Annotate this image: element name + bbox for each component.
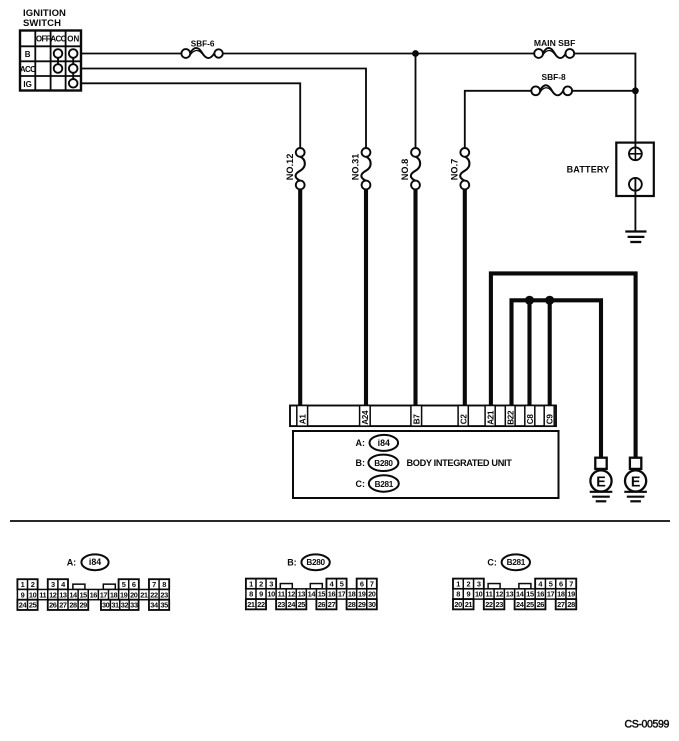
fuse NO.7	[460, 148, 469, 189]
svg-text:NO.12: NO.12	[285, 154, 295, 181]
ignition switch label	[23, 8, 66, 29]
svg-text:E: E	[631, 474, 641, 490]
svg-text:19: 19	[358, 590, 366, 599]
svg-text:C9: C9	[545, 414, 554, 425]
svg-text:16: 16	[537, 590, 545, 599]
ground E (right, from A21)	[624, 458, 647, 502]
svg-text:9: 9	[467, 590, 471, 599]
svg-text:9: 9	[21, 590, 25, 599]
body integrated unit connector strip	[290, 406, 556, 427]
pin C8	[525, 406, 535, 427]
svg-text:12: 12	[495, 590, 503, 599]
svg-text:i84: i84	[89, 557, 101, 567]
svg-text:28: 28	[69, 601, 77, 610]
svg-text:1: 1	[249, 579, 253, 588]
svg-text:NO.8: NO.8	[400, 159, 410, 180]
svg-text:28: 28	[567, 600, 575, 609]
svg-text:A1: A1	[298, 414, 307, 425]
svg-text:32: 32	[121, 601, 129, 610]
svg-text:6: 6	[132, 580, 136, 589]
svg-text:NO.7: NO.7	[449, 159, 459, 180]
node: junction feeding fuse NO.8	[412, 50, 419, 57]
fuse SBF-8	[531, 85, 572, 95]
svg-text:22: 22	[257, 600, 265, 609]
svg-text:11: 11	[39, 590, 46, 599]
svg-text:27: 27	[328, 600, 336, 609]
svg-text:IG: IG	[23, 80, 31, 89]
svg-text:24: 24	[19, 601, 28, 610]
connector ref A: i84	[356, 435, 399, 451]
svg-text:10: 10	[267, 590, 275, 599]
wire: fuse NO.31 to pin A24	[364, 189, 368, 411]
svg-text:7: 7	[152, 580, 156, 589]
fuse MAIN SBF	[534, 48, 574, 58]
wire: pin C8 branch	[527, 300, 531, 410]
wire: SBF-8 to junction on battery line	[572, 90, 635, 92]
wire: ACC terminal to fuse NO.31	[81, 69, 366, 149]
svg-text:A24: A24	[361, 410, 370, 425]
svg-text:25: 25	[29, 601, 37, 610]
svg-text:12: 12	[288, 590, 296, 599]
svg-text:BODY INTEGRATED UNIT: BODY INTEGRATED UNIT	[407, 458, 513, 468]
connector view B: B280 pin grid	[246, 554, 377, 609]
svg-text:16: 16	[90, 590, 98, 599]
svg-text:1: 1	[456, 579, 460, 588]
svg-text:35: 35	[160, 601, 168, 610]
svg-text:24: 24	[288, 600, 297, 609]
svg-text:34: 34	[150, 601, 159, 610]
svg-text:3: 3	[269, 579, 273, 588]
svg-text:18: 18	[348, 590, 356, 599]
svg-text:6: 6	[360, 579, 364, 588]
svg-text:B280: B280	[374, 459, 393, 468]
separator line between schematic and connector views	[10, 520, 670, 522]
svg-text:20: 20	[454, 600, 462, 609]
svg-text:17: 17	[338, 590, 346, 599]
svg-text:ON: ON	[67, 35, 79, 44]
svg-text:6: 6	[559, 579, 563, 588]
svg-text:7: 7	[370, 579, 374, 588]
svg-text:E: E	[596, 474, 606, 490]
svg-text:SBF-6: SBF-6	[191, 40, 215, 49]
svg-text:11: 11	[485, 590, 492, 599]
battery	[616, 143, 654, 232]
svg-text:21: 21	[465, 600, 473, 609]
svg-text:17: 17	[100, 590, 108, 599]
svg-text:31: 31	[111, 601, 119, 610]
pin A24	[360, 406, 371, 427]
svg-text:23: 23	[277, 600, 285, 609]
svg-text:25: 25	[298, 600, 306, 609]
svg-text:SBF-8: SBF-8	[541, 72, 566, 82]
ground E (left, from B22/C8/C9)	[590, 458, 613, 502]
svg-text:B:: B:	[287, 558, 297, 568]
ignition switch contact circles	[54, 49, 78, 87]
svg-text:9: 9	[259, 590, 263, 599]
svg-text:23: 23	[495, 600, 503, 609]
svg-text:ACC: ACC	[50, 35, 66, 44]
svg-text:21: 21	[140, 590, 148, 599]
svg-text:7: 7	[569, 579, 573, 588]
svg-text:3: 3	[51, 580, 55, 589]
svg-text:C8: C8	[526, 414, 535, 425]
ignition switch contact table	[20, 31, 81, 91]
svg-text:27: 27	[59, 601, 67, 610]
svg-text:22: 22	[485, 600, 493, 609]
svg-text:SWITCH: SWITCH	[23, 18, 61, 29]
fuse NO.12	[296, 148, 305, 189]
svg-text:13: 13	[298, 590, 306, 599]
svg-text:26: 26	[537, 600, 545, 609]
svg-text:26: 26	[49, 601, 57, 610]
svg-text:2: 2	[31, 580, 35, 589]
pin B22	[505, 406, 515, 427]
fuse NO.8	[411, 148, 420, 189]
wire: IG terminal to fuse NO.12	[81, 83, 300, 148]
svg-text:5: 5	[549, 579, 553, 588]
svg-text:B281: B281	[507, 558, 526, 567]
svg-text:5: 5	[340, 579, 344, 588]
svg-text:B7: B7	[412, 414, 421, 425]
svg-text:22: 22	[150, 590, 158, 599]
svg-text:5: 5	[122, 580, 126, 589]
svg-text:B: B	[25, 50, 31, 59]
svg-text:CS-00599: CS-00599	[624, 719, 669, 731]
svg-text:14: 14	[308, 590, 317, 599]
svg-text:NO.31: NO.31	[351, 154, 361, 181]
svg-text:B280: B280	[306, 558, 325, 567]
svg-text:19: 19	[120, 590, 128, 599]
svg-text:C:: C:	[487, 558, 497, 568]
svg-text:30: 30	[102, 601, 110, 610]
wire: pin B22 up and over to ground E left	[512, 300, 602, 457]
connector view A: i84 pin grid	[17, 554, 169, 610]
svg-text:14: 14	[516, 590, 525, 599]
svg-text:A:: A:	[356, 438, 366, 448]
svg-text:33: 33	[130, 601, 138, 610]
body integrated unit box	[293, 431, 559, 498]
pin B7	[411, 406, 422, 427]
svg-text:13: 13	[59, 590, 67, 599]
svg-text:i84: i84	[378, 438, 390, 448]
svg-text:A:: A:	[67, 558, 77, 568]
svg-text:B:: B:	[356, 458, 366, 468]
svg-text:12: 12	[49, 590, 57, 599]
svg-text:26: 26	[318, 600, 326, 609]
svg-text:8: 8	[162, 580, 166, 589]
connector ref B: B280	[356, 455, 399, 471]
svg-text:28: 28	[348, 600, 356, 609]
pin A1	[297, 406, 308, 427]
pin C9	[544, 406, 554, 427]
svg-text:29: 29	[79, 601, 87, 610]
svg-text:13: 13	[506, 590, 514, 599]
svg-text:2: 2	[259, 579, 263, 588]
svg-text:23: 23	[160, 590, 168, 599]
svg-text:17: 17	[547, 590, 555, 599]
wire: fuse NO.8 to pin B7	[413, 189, 417, 411]
svg-text:1: 1	[21, 580, 25, 589]
svg-text:10: 10	[475, 590, 483, 599]
svg-text:21: 21	[247, 600, 255, 609]
svg-text:27: 27	[557, 600, 565, 609]
svg-text:15: 15	[79, 590, 87, 599]
svg-text:11: 11	[278, 590, 285, 599]
svg-text:OFF: OFF	[36, 35, 51, 44]
svg-text:8: 8	[456, 590, 460, 599]
svg-text:B22: B22	[506, 410, 515, 425]
svg-text:14: 14	[69, 590, 78, 599]
node: C8 junction	[525, 296, 534, 305]
wire: MAIN SBF to battery positive	[574, 54, 635, 143]
svg-text:MAIN SBF: MAIN SBF	[534, 38, 576, 48]
wire: pin C9 branch	[548, 300, 552, 410]
svg-text:15: 15	[318, 590, 326, 599]
svg-text:20: 20	[368, 590, 376, 599]
fuse NO.31	[361, 148, 370, 189]
wire: pin A21 up and over to ground E right	[491, 273, 636, 457]
svg-text:3: 3	[477, 579, 481, 588]
svg-text:2: 2	[467, 579, 471, 588]
wire: fuse NO.12 to pin A1	[298, 189, 302, 411]
svg-text:24: 24	[516, 600, 525, 609]
svg-text:C:: C:	[356, 479, 366, 489]
svg-text:ACC: ACC	[20, 65, 36, 74]
svg-text:C2: C2	[459, 414, 468, 425]
node: junction of SBF-8 feed on battery line	[632, 87, 639, 94]
fuse SBF-6	[181, 48, 222, 58]
svg-text:BATTERY: BATTERY	[567, 165, 610, 175]
pin A21	[485, 406, 495, 427]
node: C9 junction	[545, 296, 554, 305]
svg-text:B281: B281	[375, 480, 394, 489]
svg-text:15: 15	[526, 590, 534, 599]
svg-text:18: 18	[110, 590, 118, 599]
wire: SBF-8 feed down to fuse NO.7	[465, 91, 532, 149]
svg-text:20: 20	[130, 590, 138, 599]
ground below battery	[625, 232, 646, 243]
svg-text:30: 30	[368, 600, 376, 609]
connector view C: B281 pin grid	[453, 554, 576, 609]
wire: SBF-6 to fuse MAIN SBF	[223, 53, 534, 55]
wire: ignition B terminal to fuse SBF-6	[81, 53, 182, 55]
svg-text:10: 10	[29, 590, 37, 599]
pin C2	[458, 406, 468, 427]
svg-text:16: 16	[328, 590, 336, 599]
svg-text:29: 29	[358, 600, 366, 609]
svg-text:8: 8	[249, 590, 253, 599]
wire: junction down to fuse NO.8	[415, 54, 417, 149]
svg-text:A21: A21	[486, 410, 495, 425]
svg-text:19: 19	[567, 590, 575, 599]
wire: fuse NO.7 to pin C2	[463, 189, 467, 411]
connector ref C: B281	[356, 475, 399, 491]
svg-text:25: 25	[526, 600, 534, 609]
svg-text:18: 18	[557, 590, 565, 599]
